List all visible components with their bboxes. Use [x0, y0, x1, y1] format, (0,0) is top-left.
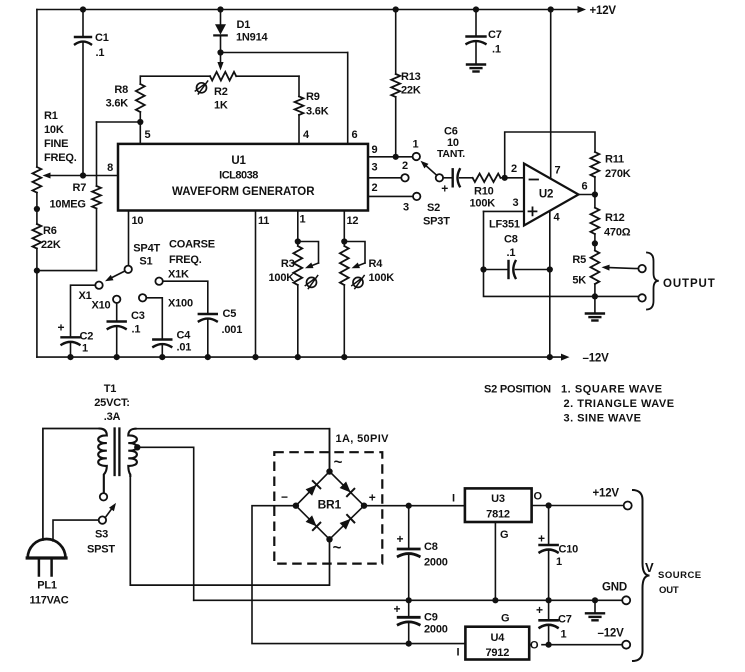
svg-text:C1: C1 — [95, 32, 109, 44]
transformer center tap — [134, 444, 194, 450]
svg-text:.1: .1 — [507, 247, 516, 259]
bridge BR1 vertices — [293, 468, 368, 542]
bridge AC tilde top — [334, 454, 343, 471]
pin 10 label — [132, 215, 144, 227]
wire pin 2 (triangle) — [368, 195, 413, 197]
svg-text:2: 2 — [402, 160, 408, 172]
resistor R8 3.6K — [106, 76, 145, 144]
V SOURCE OUT label — [645, 560, 702, 596]
pin 5 label — [145, 129, 151, 141]
wire bridge plus to U3 input — [364, 505, 465, 507]
svg-text:+: + — [441, 182, 448, 196]
svg-text:WAVEFORM GENERATOR: WAVEFORM GENERATOR — [172, 186, 315, 198]
capacitor C3 .1 — [108, 303, 145, 360]
svg-text:R9: R9 — [306, 91, 320, 103]
svg-text:~: ~ — [333, 540, 342, 557]
transformer T1 secondary winding — [128, 429, 329, 585]
svg-text:12: 12 — [347, 215, 359, 227]
svg-text:1: 1 — [556, 556, 562, 568]
pin 9 label — [372, 144, 378, 156]
svg-text:ICL8038: ICL8038 — [219, 169, 258, 181]
wire pin 11 — [252, 211, 258, 361]
svg-text:–12V: –12V — [583, 353, 610, 365]
ground below C7 — [467, 65, 485, 72]
U4 I label — [457, 647, 460, 659]
svg-text:3.6K: 3.6K — [106, 98, 129, 110]
svg-text:U4: U4 — [490, 632, 505, 644]
svg-text:I: I — [452, 493, 455, 505]
capacitor C7 1 (power) — [536, 600, 572, 648]
wire -12V rail — [37, 353, 609, 365]
svg-text:V: V — [645, 560, 654, 575]
svg-text:+: + — [369, 491, 376, 505]
svg-text:U2: U2 — [539, 189, 553, 201]
resistor R2 1K potentiometer — [140, 72, 299, 112]
svg-text:5K: 5K — [572, 275, 586, 287]
svg-text:10K: 10K — [44, 124, 64, 136]
capacitor C6 10 TANT — [437, 126, 473, 196]
svg-text:+: + — [538, 532, 545, 546]
wire feedback to R11 — [505, 132, 595, 178]
resistor R3 100K potentiometer — [269, 211, 319, 361]
wire pin 9 — [368, 154, 413, 160]
svg-text:R6: R6 — [43, 225, 57, 237]
svg-text:R5: R5 — [572, 254, 586, 266]
U2 pin 7 label — [555, 165, 561, 177]
svg-text:7912: 7912 — [485, 647, 509, 659]
svg-text:R11: R11 — [605, 154, 624, 166]
svg-text:+: + — [57, 321, 64, 335]
svg-text:+: + — [396, 532, 403, 546]
svg-text:X100: X100 — [168, 298, 193, 310]
pin 4 label — [303, 129, 310, 141]
resistor R4 100K potentiometer — [340, 211, 394, 361]
wire pin 10 — [128, 211, 130, 266]
svg-text:100K: 100K — [369, 272, 395, 284]
wire U2 pin 3 — [484, 211, 525, 269]
resistor R10 100K — [470, 174, 525, 210]
switch S2 SP3T contact 2 — [401, 160, 408, 182]
node R8-pin5 junction — [137, 119, 143, 125]
pin 1 label — [300, 214, 306, 226]
svg-text:SOURCE: SOURCE — [658, 570, 702, 581]
output brace — [647, 253, 659, 310]
svg-text:S1: S1 — [139, 256, 152, 268]
svg-text:C9: C9 — [424, 612, 438, 624]
svg-text:C5: C5 — [223, 308, 237, 320]
svg-text:T1: T1 — [104, 383, 117, 395]
svg-text:BR1: BR1 — [318, 498, 342, 512]
svg-text:PL1: PL1 — [37, 580, 57, 592]
diode D1 1N914 — [214, 6, 268, 52]
svg-text:2. TRIANGLE WAVE: 2. TRIANGLE WAVE — [564, 398, 675, 410]
wire U2 pin 7 to +12V — [548, 6, 554, 178]
node R5 bottom junction — [592, 293, 598, 299]
svg-text:FREQ.: FREQ. — [169, 254, 202, 266]
wire pin 3 (sine) — [368, 177, 401, 179]
svg-text:G: G — [501, 613, 509, 625]
wire left vertical from +12V rail to R1 — [36, 10, 38, 168]
svg-text:1. SQUARE WAVE: 1. SQUARE WAVE — [561, 384, 663, 396]
switch S1 contact X100 — [139, 294, 193, 309]
svg-text:.1: .1 — [492, 44, 501, 56]
node U2 pin4 on -12V rail — [547, 354, 553, 360]
pin 11 label — [258, 215, 269, 227]
svg-text:7: 7 — [555, 165, 561, 177]
svg-text:−: − — [281, 490, 288, 504]
switch S2 pole and arm — [421, 161, 451, 228]
bridge minus label — [281, 490, 288, 504]
capacitor C1 — [75, 6, 109, 175]
svg-text:FINE: FINE — [44, 138, 68, 150]
ground at R5 bottom — [586, 296, 604, 320]
S2 position legend — [484, 384, 675, 425]
svg-text:C8: C8 — [504, 234, 518, 246]
svg-text:S2 POSITION: S2 POSITION — [484, 384, 551, 396]
svg-text:+12V: +12V — [590, 5, 617, 17]
resistor R5 5K potentiometer — [572, 243, 599, 296]
bridge diode left-top — [296, 472, 330, 506]
wire +12V top rail — [37, 5, 617, 17]
bridge rectifier dashed box — [274, 452, 382, 563]
svg-text:X1K: X1K — [168, 269, 189, 281]
wire R5 wiper to output terminal — [602, 265, 646, 273]
op-amp U2 LF351 triangle — [524, 164, 579, 226]
node R12-R5 junction — [592, 240, 598, 246]
svg-text:R12: R12 — [605, 212, 625, 224]
svg-text:3: 3 — [513, 197, 519, 209]
wire C8 node to ground node — [484, 270, 595, 297]
bridge diode left-bottom — [296, 506, 330, 540]
U4 O label — [530, 640, 539, 652]
svg-text:R13: R13 — [401, 71, 421, 83]
svg-text:1K: 1K — [214, 100, 228, 112]
svg-text:100K: 100K — [470, 198, 496, 210]
svg-text:R10: R10 — [474, 186, 494, 198]
wire to lower output terminal — [595, 294, 646, 301]
svg-text:1: 1 — [300, 214, 306, 226]
svg-text:1N914: 1N914 — [236, 32, 268, 44]
pin 6 label — [352, 129, 358, 141]
wire U3 output to +12V — [532, 488, 632, 510]
wire pin 6 — [347, 53, 349, 144]
svg-text:1: 1 — [82, 343, 88, 355]
svg-text:22K: 22K — [401, 85, 421, 97]
svg-text:SP4T: SP4T — [133, 243, 160, 255]
svg-text:7812: 7812 — [486, 509, 510, 521]
svg-text:.001: .001 — [222, 324, 243, 336]
svg-text:O: O — [534, 491, 543, 503]
svg-text:S2: S2 — [427, 202, 440, 214]
svg-text:2: 2 — [372, 182, 378, 194]
bridge AC tilde bottom — [333, 540, 342, 557]
svg-text:R4: R4 — [369, 258, 384, 270]
resistor R12 470ohm — [591, 195, 631, 244]
svg-text:R8: R8 — [114, 84, 128, 96]
switch S2 SP3T contact 1 — [413, 139, 420, 161]
bridge diode top-right — [330, 472, 365, 506]
svg-text:R7: R7 — [73, 182, 87, 194]
svg-text:.1: .1 — [96, 47, 105, 59]
wire U4 output to -12V — [542, 628, 630, 649]
svg-text:C7: C7 — [488, 29, 502, 41]
bridge plus label — [369, 491, 376, 505]
U4 G label — [501, 613, 509, 625]
switch S2 SP3T contact 3 — [403, 193, 420, 214]
capacitor C9 2000 — [393, 600, 447, 646]
transformer T1 core — [115, 429, 120, 476]
resistor R7 10MEG — [37, 122, 101, 271]
wire U2 pin 4 to -12V — [549, 211, 551, 357]
svg-text:3.6K: 3.6K — [306, 106, 329, 118]
svg-text:2000: 2000 — [424, 557, 448, 569]
resistor R6 22K — [33, 224, 61, 357]
svg-text:1: 1 — [561, 629, 567, 641]
svg-text:~: ~ — [334, 454, 343, 471]
wire R2 wiper arrow — [217, 53, 223, 71]
svg-text:+: + — [536, 603, 543, 617]
svg-text:SPST: SPST — [87, 544, 115, 556]
svg-text:C3: C3 — [131, 310, 145, 322]
bridge diode bottom-right — [330, 506, 365, 540]
U2 LF351 label — [489, 219, 520, 231]
svg-text:11: 11 — [258, 215, 269, 227]
svg-text:9: 9 — [372, 144, 378, 156]
svg-text:100K: 100K — [269, 272, 295, 284]
svg-text:3: 3 — [403, 202, 409, 214]
svg-text:C7: C7 — [558, 614, 572, 626]
capacitor C8 2000 — [396, 503, 447, 604]
svg-text:.01: .01 — [177, 342, 192, 354]
svg-text:COARSE: COARSE — [169, 238, 215, 250]
svg-text:OUT: OUT — [659, 585, 679, 596]
svg-text:U3: U3 — [491, 493, 505, 505]
svg-text:S3: S3 — [95, 529, 108, 541]
svg-text:.3A: .3A — [104, 411, 121, 423]
svg-text:+12V: +12V — [593, 488, 620, 500]
resistor R11 270K — [591, 152, 631, 195]
U2 pin 3 label — [513, 197, 519, 209]
svg-text:D1: D1 — [237, 19, 251, 31]
svg-text:2: 2 — [511, 163, 517, 175]
svg-text:TANT.: TANT. — [437, 148, 465, 160]
wire R7-top to pin5 node — [97, 121, 141, 123]
svg-text:.1: .1 — [132, 324, 141, 336]
svg-text:10MEG: 10MEG — [50, 199, 86, 211]
svg-text:1A, 50PIV: 1A, 50PIV — [336, 433, 390, 445]
svg-text:22K: 22K — [41, 239, 61, 251]
svg-text:C8: C8 — [424, 541, 438, 553]
U2 pin 2 label — [511, 163, 517, 175]
node R6-R7 junction — [34, 268, 40, 274]
wire bridge minus to U4 input — [252, 506, 465, 644]
plug PL1 117VAC — [27, 539, 69, 606]
1A 50PIV label — [336, 433, 390, 445]
COARSE FREQ label — [169, 238, 215, 266]
transformer T1 labels — [94, 383, 129, 423]
svg-text:470Ω: 470Ω — [604, 227, 631, 239]
svg-text:R2: R2 — [214, 86, 228, 98]
U2 pin 4 label — [554, 212, 561, 224]
BR1 label — [318, 498, 342, 512]
svg-text:117VAC: 117VAC — [30, 595, 69, 607]
resistor R13 22K — [391, 6, 421, 156]
svg-text:270K: 270K — [605, 168, 631, 180]
svg-text:25VCT:: 25VCT: — [94, 397, 129, 409]
svg-text:X1: X1 — [79, 290, 92, 302]
U3 I label — [452, 493, 455, 505]
capacitor C4 .01 — [146, 298, 191, 360]
svg-text:LF351: LF351 — [489, 219, 520, 231]
node R1-R6 junction — [34, 206, 40, 212]
svg-text:I: I — [457, 647, 460, 659]
U3 O label — [534, 491, 543, 503]
svg-text:6: 6 — [582, 181, 588, 193]
OUTPUT label — [663, 278, 716, 290]
node D1-R2-pin6 junction — [217, 49, 223, 55]
svg-text:–12V: –12V — [598, 628, 625, 640]
pin 12 label — [347, 215, 359, 227]
GND output terminal — [592, 582, 630, 605]
capacitor C2 1 — [57, 285, 95, 360]
svg-text:6: 6 — [352, 129, 358, 141]
capacitor C7 .1 (top) — [467, 6, 502, 64]
V source out brace — [633, 490, 650, 661]
ground symbol below GND — [586, 600, 604, 620]
svg-text:10: 10 — [132, 215, 144, 227]
wire R1 wiper to pin 8 — [43, 172, 119, 178]
wire center tap / ground rail — [194, 447, 595, 600]
svg-text:R3: R3 — [281, 258, 295, 270]
wire D1 junction to pin 6 — [221, 52, 348, 54]
resistor R9 3.6K — [295, 76, 329, 144]
svg-text:C4: C4 — [177, 330, 192, 342]
svg-text:C6: C6 — [444, 126, 458, 138]
svg-text:2000: 2000 — [424, 624, 448, 636]
svg-text:C2: C2 — [80, 331, 94, 343]
svg-text:O: O — [530, 640, 539, 652]
pin 3 label — [372, 162, 378, 174]
node output junction — [592, 191, 598, 197]
regulator U3 7812 — [465, 488, 532, 522]
svg-text:X10: X10 — [92, 300, 111, 312]
switch S1 contact X1 — [79, 282, 103, 303]
svg-text:1: 1 — [413, 139, 419, 151]
capacitor C5 .001 — [163, 281, 242, 360]
capacitor C8 .1 — [480, 234, 553, 279]
regulator U4 7912 — [465, 627, 529, 660]
svg-text:G: G — [500, 529, 508, 541]
U2 pin 6 label — [582, 181, 588, 193]
svg-text:U1: U1 — [231, 155, 246, 167]
wire U2 output pin 6 — [579, 194, 595, 196]
switch S3 SPST — [53, 476, 116, 556]
op-amp U1 ICL8038 waveform generator box — [118, 144, 368, 211]
node R10 - U2 pin2 junction — [502, 175, 508, 181]
wire secondary top to bridge — [329, 429, 331, 472]
switch S1 SP4T pole — [105, 243, 160, 282]
svg-text:C10: C10 — [559, 544, 579, 556]
svg-text:3. SINE WAVE: 3. SINE WAVE — [564, 413, 642, 425]
capacitor C10 1 — [538, 506, 578, 604]
switch S1 contact X1K — [155, 269, 189, 285]
svg-text:R1: R1 — [44, 110, 58, 122]
pin 8 label — [107, 162, 113, 174]
svg-text:5: 5 — [145, 129, 151, 141]
pin 2 label — [372, 182, 378, 194]
svg-text:SP3T: SP3T — [423, 216, 450, 228]
transformer T1 primary winding — [43, 429, 107, 541]
svg-text:OUTPUT: OUTPUT — [663, 278, 716, 290]
svg-text:3: 3 — [372, 162, 378, 174]
svg-text:8: 8 — [107, 162, 113, 174]
resistor R1 10K FINE FREQ potentiometer — [33, 110, 77, 224]
svg-text:+: + — [393, 602, 400, 616]
svg-text:FREQ.: FREQ. — [44, 152, 77, 164]
svg-text:GND: GND — [602, 582, 627, 594]
wire U3 ground pin — [492, 522, 508, 603]
switch S1 contact X10 — [92, 296, 121, 312]
